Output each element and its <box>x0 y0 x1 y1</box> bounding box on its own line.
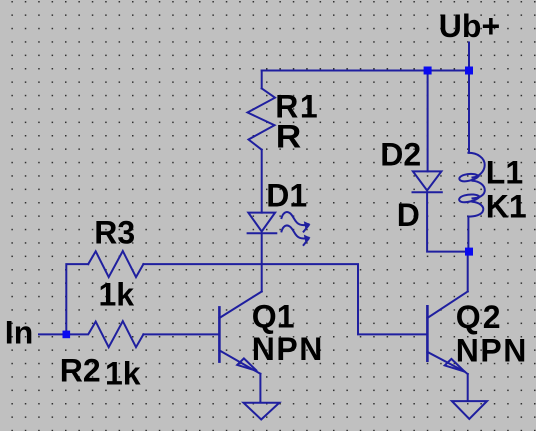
diode D1 (LED) <box>248 213 277 234</box>
svg-text:Ub+: Ub+ <box>439 8 500 44</box>
ground Q1 <box>244 403 280 420</box>
svg-text:NPN: NPN <box>252 331 324 367</box>
svg-text:D1: D1 <box>266 178 307 214</box>
svg-text:1k: 1k <box>99 277 135 313</box>
transistor Q1 <box>219 292 261 374</box>
svg-text:Q2: Q2 <box>456 299 503 335</box>
junction node In/R2/R3 <box>63 331 71 339</box>
wire R2 to Q1 base <box>143 333 219 335</box>
wire Q2 emitter to ground <box>467 374 469 401</box>
LED D1 emission arrow 1 <box>282 212 311 232</box>
LED D1 emission arrow 2 <box>282 225 311 245</box>
svg-text:D: D <box>397 197 420 233</box>
resistor R1 <box>248 88 276 149</box>
wire rail to R1 <box>261 71 263 89</box>
transistor Q2 <box>427 292 467 375</box>
svg-text:D2: D2 <box>380 137 421 173</box>
svg-text:R3: R3 <box>94 215 135 251</box>
junction node rail/D2 <box>424 67 432 75</box>
inductor L1 relay coil K1 <box>459 153 485 217</box>
svg-text:K1: K1 <box>486 189 527 225</box>
svg-text:In: In <box>5 315 33 351</box>
svg-text:Q1: Q1 <box>252 299 295 335</box>
wire Ub+ stub <box>468 43 470 71</box>
wire rail to L1 <box>468 71 470 153</box>
ground Q2 <box>452 401 487 419</box>
junction node rail/L1 <box>465 67 473 75</box>
wire top supply rail <box>262 70 469 72</box>
wire In node riser to R3 <box>66 264 88 334</box>
wire Q1 emitter to ground <box>259 374 261 402</box>
wire D1 cathode down to Q1 collector node <box>261 233 263 291</box>
resistor R2 <box>66 321 143 347</box>
wire rail to D2 <box>427 71 429 172</box>
svg-text:1k: 1k <box>105 356 141 392</box>
resistor R3 <box>88 251 143 277</box>
wire mid node: R3 output to Q2 base <box>143 264 427 334</box>
wire R1 to D1 <box>261 150 263 213</box>
svg-text:L1: L1 <box>486 155 523 191</box>
svg-text:NPN: NPN <box>456 333 528 369</box>
diode D2 <box>413 171 442 192</box>
wire L1 bottom to node <box>467 217 469 252</box>
wire In lead <box>39 333 66 335</box>
wire D2 cathode down <box>427 192 465 251</box>
wire node to Q2 collector <box>467 252 469 292</box>
junction node D2/L1/Q2 <box>465 248 473 256</box>
svg-text:R2: R2 <box>60 353 101 389</box>
svg-text:R: R <box>276 119 302 155</box>
